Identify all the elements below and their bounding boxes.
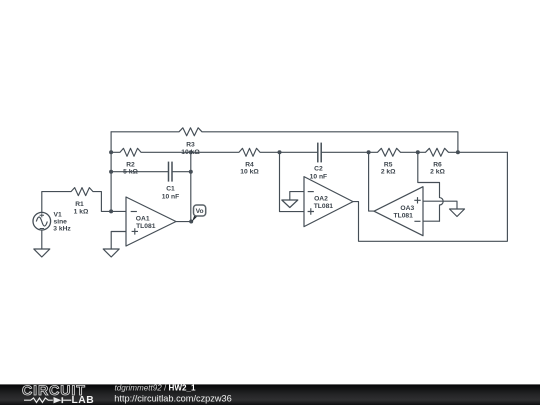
svg-text:5 kΩ: 5 kΩ (123, 169, 138, 176)
svg-text:TL081: TL081 (314, 203, 334, 210)
svg-text:10 kΩ: 10 kΩ (181, 149, 200, 156)
svg-text:10 nF: 10 nF (162, 193, 179, 200)
svg-text:OA2: OA2 (314, 195, 328, 202)
svg-text:Vo: Vo (196, 208, 204, 215)
svg-text:10 kΩ: 10 kΩ (240, 169, 259, 176)
svg-text:LAB: LAB (72, 395, 95, 405)
svg-text:OA1: OA1 (136, 216, 150, 223)
svg-text:10 nF: 10 nF (310, 173, 327, 180)
svg-text:R3: R3 (186, 141, 195, 148)
svg-text:R5: R5 (384, 161, 393, 168)
svg-text:R1: R1 (75, 201, 84, 208)
svg-text:TL081: TL081 (394, 212, 414, 219)
svg-text:tdgrimmett92 / HW2_1: tdgrimmett92 / HW2_1 (115, 384, 196, 393)
svg-text:C1: C1 (166, 186, 175, 193)
svg-text:3 kHz: 3 kHz (53, 226, 71, 233)
svg-text:sine: sine (54, 218, 68, 225)
svg-text:2 kΩ: 2 kΩ (381, 169, 396, 176)
svg-text:V1: V1 (54, 211, 62, 218)
svg-text:R4: R4 (245, 161, 254, 168)
svg-text:TL081: TL081 (136, 223, 156, 230)
svg-text:C2: C2 (314, 166, 323, 173)
svg-text:1 kΩ: 1 kΩ (74, 208, 89, 215)
svg-text:R2: R2 (126, 161, 135, 168)
svg-text:http://circuitlab.com/czpzw36: http://circuitlab.com/czpzw36 (114, 394, 231, 404)
svg-text:OA3: OA3 (400, 205, 414, 212)
svg-text:2 kΩ: 2 kΩ (430, 169, 445, 176)
svg-text:R6: R6 (433, 161, 442, 168)
